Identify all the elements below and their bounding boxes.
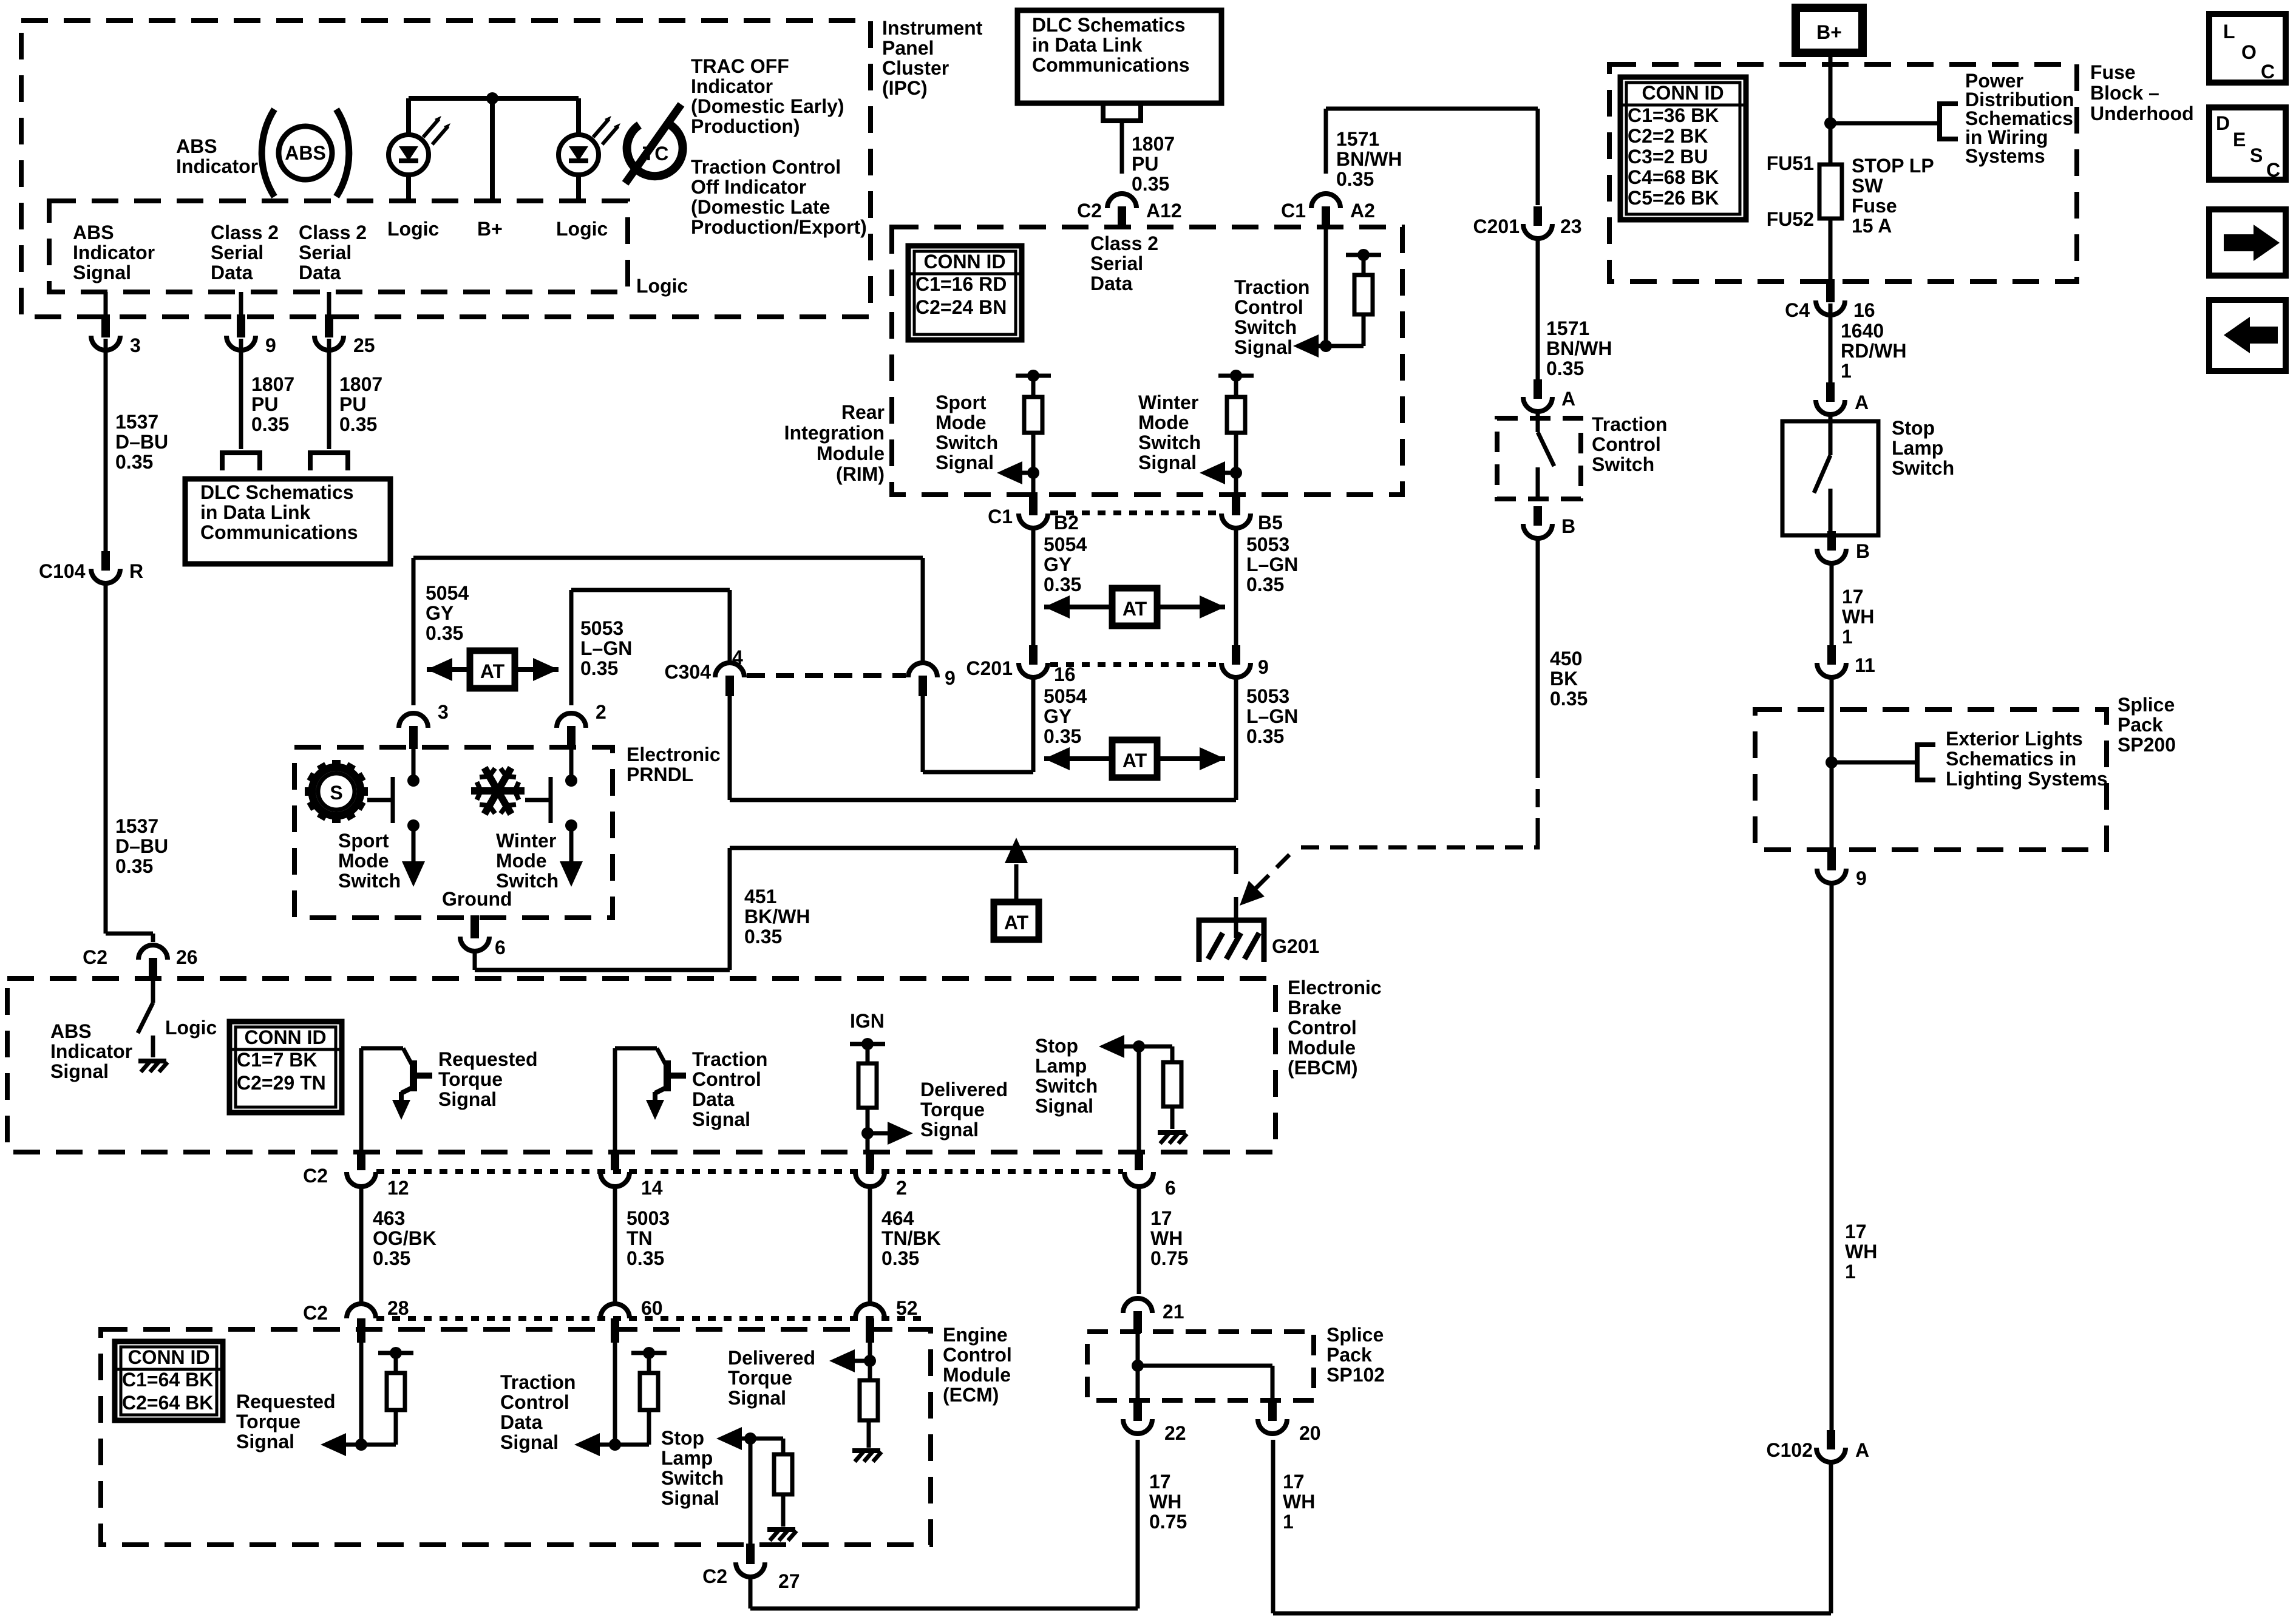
label: Splice Pack SP200 [2118,694,2176,756]
connector: ECM C2 pin 27 [702,1544,800,1592]
connector: ECM C2 pin 60 [600,1297,663,1343]
svg-text:Logic: Logic [636,275,688,297]
fuse FU51/FU52 STOP LP SW 15A [1819,123,1842,280]
svg-text:Panel: Panel [882,37,934,59]
svg-text:IGN: IGN [850,1010,885,1032]
svg-text:OG/BK: OG/BK [373,1227,436,1249]
svg-text:E: E [2233,129,2246,151]
label: IGN [850,1010,885,1032]
svg-text:9: 9 [1258,656,1269,678]
svg-text:C4: C4 [1785,299,1810,321]
svg-text:C1=7 BK: C1=7 BK [237,1049,318,1071]
svg-text:Torque: Torque [920,1099,985,1120]
svg-text:AT: AT [1123,750,1147,771]
svg-text:Serial: Serial [211,242,263,263]
svg-text:15 A: 15 A [1852,215,1892,237]
label: Requested Torque Signal (ECM) [236,1391,336,1453]
junction: ECM delivered torque node [864,1355,876,1367]
svg-text:BK: BK [1550,668,1578,690]
wire 463 OG/BK 0.35 (12 to 28) [359,1188,364,1303]
svg-text:CONN ID: CONN ID [1642,82,1724,104]
label: wire 464 TN/BK 0.35 [881,1207,941,1269]
label: Logic (right LED) [556,218,608,240]
wire: IPC B+ top rail [409,98,579,201]
wire 5054 GY (PRNDL pin3 up/over to C304-9) [413,558,923,705]
label: Fuse Block - Underhood [2090,61,2194,124]
connector: PRNDL pin 3 [399,701,449,749]
svg-text:ABS: ABS [50,1020,92,1042]
label: FU52 [1767,208,1814,230]
resistor: delivered torque source (from IGN) [850,1038,885,1151]
svg-text:3: 3 [130,334,141,356]
Traction Control Switch box [1497,418,1581,499]
label: wire 17 WH 0.75 (upper) [1150,1207,1188,1269]
svg-text:1807: 1807 [251,373,294,395]
termination bracket: wire 25 into DLC box [310,453,348,470]
svg-text:1: 1 [1842,626,1853,648]
wire 5053 L-GN (C304-4 down/right/up to C201-9) [730,696,1236,800]
svg-text:Switch: Switch [1138,432,1201,453]
svg-text:Data: Data [692,1088,735,1110]
svg-text:L–GN: L–GN [580,637,632,659]
ABS indicator icon [262,109,349,197]
wire: pin 11 into SP200 [1830,679,1834,762]
label: Rear Integration Module (RIM) [784,401,885,485]
svg-text:WH: WH [1150,1227,1183,1249]
label: Stop Lamp Switch [1892,417,1954,479]
connector: SP102 pin 21 [1123,1298,1184,1333]
svg-text:5003: 5003 [627,1207,670,1229]
label: Traction Control Off Indicator (Domestic Late Production/Export) [691,156,867,238]
wire: traction control data into ECM [613,1340,617,1445]
reference box: DLC Schematics in Data Link Communications (left) [185,479,390,564]
resistor: TCS signal pull-up [1346,249,1381,346]
svg-text:Mode: Mode [496,850,547,872]
svg-text:5054: 5054 [426,582,469,604]
svg-text:Data: Data [299,262,341,283]
svg-text:PRNDL: PRNDL [627,764,693,785]
svg-text:0.35: 0.35 [1246,725,1284,747]
connector line: C1 (dotted) [1050,510,1220,515]
svg-text:C1=16 RD: C1=16 RD [915,273,1007,295]
ground G201 [1199,920,1319,962]
svg-text:Production): Production) [691,115,800,137]
connector: PRNDL pin 6 [460,915,506,958]
LOC navigation box [2209,14,2286,83]
label: Logic (IPC logic block) [636,275,688,297]
arrow: Stop Lamp Switch Signal (EBCM) [1099,1035,1139,1058]
wire: traction control data (EBCM pin C2-14) [613,1048,617,1151]
svg-text:Block –: Block – [2090,82,2159,104]
label: Engine Control Module (ECM) [943,1324,1012,1406]
svg-text:Signal: Signal [1138,452,1197,473]
connector: SP102 pin 22 [1123,1398,1186,1444]
svg-text:A: A [1855,392,1869,413]
wire: requested torque (EBCM pin C2-12) [359,1048,364,1151]
connector line: EBCM C2 (dotted) [376,1169,1123,1174]
connector: EBCM C2 pin 6 [1124,1152,1176,1199]
svg-text:CONN ID: CONN ID [244,1026,326,1048]
wire 17 WH 1 (SP200-9 down to C102) [1830,885,1834,1430]
wire: B+ to power distribution ref [1830,121,1940,126]
label: wire 5003 TN 0.35 [627,1207,670,1269]
svg-text:Cluster: Cluster [882,57,949,79]
svg-text:Signal: Signal [50,1060,109,1082]
svg-text:Signal: Signal [73,262,131,283]
label: wire 5053 L-GN 0.35 (lower) [1246,685,1298,747]
svg-text:O: O [2241,41,2257,63]
svg-text:PU: PU [1132,153,1158,175]
svg-text:3: 3 [438,701,449,723]
connector: stop lamp switch pin B [1817,531,1870,563]
svg-text:Splice: Splice [2118,694,2175,716]
svg-text:0.35: 0.35 [580,657,618,679]
svg-text:DLC Schematics: DLC Schematics [1032,14,1186,36]
wire: stop lamp switch signal (EBCM pin C2-6) [1137,1046,1141,1151]
label: wire 5054 GY 0.35 (PRNDL) [426,582,469,644]
svg-text:BN/WH: BN/WH [1546,337,1612,359]
RIM CONN ID table [908,246,1022,340]
svg-text:in Data Link: in Data Link [1032,34,1143,56]
label: STOP LP SW Fuse 15 A [1852,155,1934,237]
label: Class 2 Serial Data (IPC pin 25) [299,222,367,283]
svg-text:STOP LP: STOP LP [1852,155,1934,177]
wire 17 WH 1 (C102-A to SP102 pin 20) [1273,1440,1831,1613]
svg-text:Winter: Winter [1138,392,1198,413]
svg-text:1537: 1537 [115,411,158,433]
wire: G201 drop (lower) [1234,897,1238,938]
label: Sport Mode Switch [338,830,401,892]
label: Stop Lamp Switch Signal (ECM) [661,1427,724,1509]
svg-text:Signal: Signal [1035,1095,1093,1117]
connector stub: C304 pin 9 wire down [921,696,925,708]
svg-text:C2=24 BN: C2=24 BN [915,296,1007,318]
svg-text:SP200: SP200 [2118,734,2176,756]
wire: C2-27 to splice pack 22 [750,1440,1138,1609]
svg-text:A: A [1855,1439,1869,1461]
svg-text:(ECM): (ECM) [943,1384,999,1406]
svg-text:0.35: 0.35 [115,451,153,473]
svg-text:0.35: 0.35 [1246,574,1284,595]
connector: EBCM C2 pin 2 [855,1152,907,1199]
AT option symbol (PRNDL) [427,651,559,688]
svg-text:Signal: Signal [936,452,994,473]
svg-text:Communications: Communications [200,521,358,543]
svg-text:9: 9 [1856,867,1867,889]
traction control switch blade [1538,413,1554,499]
svg-text:GY: GY [426,602,453,624]
svg-text:DLC Schematics: DLC Schematics [200,481,354,503]
arrow+wire: Traction Control Switch Signal [1293,334,1364,358]
svg-text:Control: Control [1234,296,1303,318]
svg-text:Signal: Signal [438,1088,497,1110]
connector: IPC pin 25 [314,314,375,356]
svg-text:TN: TN [627,1227,653,1249]
label: wire 451 BK/WH 0.35 [744,886,810,947]
connector line: ECM C2 (dotted) [376,1316,929,1321]
svg-text:0.35: 0.35 [881,1247,919,1269]
svg-text:Electronic: Electronic [1288,977,1382,998]
label: wire 17 WH 1 (upper) [1842,586,1874,648]
label: wire 5054 GY 0.35 (B2) [1044,534,1087,595]
svg-text:1537: 1537 [115,815,158,837]
svg-text:WH: WH [1283,1491,1315,1513]
wire: ABS indicator signal inside IPC [104,292,108,316]
svg-text:C1: C1 [988,506,1013,527]
wire 5053 L-GN (B5 to C201-9) [1234,529,1238,645]
sport mode gear icon [305,760,368,823]
svg-text:ABS: ABS [285,142,326,164]
svg-text:Winter: Winter [496,830,556,852]
svg-text:2: 2 [896,1177,907,1199]
svg-text:463: 463 [373,1207,405,1229]
previous-page arrow box [2209,300,2286,371]
svg-text:L–GN: L–GN [1246,705,1298,727]
svg-text:9: 9 [945,667,956,689]
label: ABS Indicator (icon caption) [176,135,258,177]
svg-text:1571: 1571 [1336,128,1379,150]
termination bracket: wire 9 into DLC box [222,453,260,470]
svg-text:GY: GY [1044,554,1072,575]
wire: delivered torque into ECM [868,1340,872,1361]
svg-text:Traction: Traction [500,1371,576,1393]
AT option symbol (lower) [1044,740,1225,778]
svg-text:RD/WH: RD/WH [1841,340,1906,362]
svg-text:21: 21 [1163,1301,1184,1323]
svg-text:6: 6 [1165,1177,1176,1199]
svg-text:Lamp: Lamp [1035,1055,1087,1077]
svg-text:0.35: 0.35 [627,1247,664,1269]
arrow: Requested Torque Signal (ECM) [321,1433,361,1456]
svg-text:Signal: Signal [661,1487,719,1509]
Electronic PRNDL box [294,747,613,918]
resistor: ECM delivered torque to ground [860,1361,878,1448]
label: Splice Pack SP102 [1326,1324,1385,1386]
svg-text:Class 2: Class 2 [1090,232,1158,254]
wire: requested torque into ECM [359,1340,364,1445]
wire 17 WH 0.75 (6 to 21) [1137,1188,1141,1294]
label: Class 2 Serial Data (IPC pin 9) [211,222,279,283]
svg-text:Instrument: Instrument [882,17,983,39]
svg-text:Control: Control [692,1068,761,1090]
svg-text:(EBCM): (EBCM) [1288,1057,1358,1079]
svg-text:Logic: Logic [387,218,439,240]
svg-text:17: 17 [1150,1207,1172,1229]
svg-text:11: 11 [1855,654,1875,676]
svg-text:1: 1 [1841,360,1852,382]
ground: ECM delivered torque [852,1451,881,1462]
label: Electronic Brake Control Module (EBCM) [1288,977,1382,1079]
wire: SP102 internal splice [1138,1333,1272,1399]
svg-text:Fuse: Fuse [1852,195,1897,217]
label: Traction Control Data Signal (ECM) [500,1371,576,1453]
svg-text:Ground: Ground [442,888,512,910]
label: Traction Control Switch Signal [1234,276,1309,358]
svg-text:0.35: 0.35 [744,926,782,947]
wire 5053 L-GN (PRNDL pin2 up/over to C304-4) [571,590,730,705]
svg-text:AT: AT [1123,598,1147,620]
termination bracket: DLC box to wire 1807 [1103,103,1141,121]
wire 1571 BN/WH 0.35 (C201-23 to TCS A) [1536,240,1540,379]
wire: Class2 serial data stub (pin 9) [239,292,243,316]
svg-text:12: 12 [387,1177,409,1199]
svg-text:Logic: Logic [165,1017,217,1039]
svg-text:Lighting Systems: Lighting Systems [1946,768,2108,790]
svg-text:27: 27 [778,1570,800,1592]
winter mode switch (wire, contacts and travel arrow) [560,749,583,887]
svg-text:0.35: 0.35 [1132,173,1169,195]
svg-text:Signal: Signal [728,1387,786,1409]
svg-text:Control: Control [500,1391,569,1413]
svg-text:0.35: 0.35 [251,413,289,435]
junction: ECM stop lamp node [744,1432,756,1445]
resistor: sport mode pull-up [1016,370,1051,493]
svg-text:451: 451 [744,886,776,907]
wire 1807 PU 0.35 (pin 25 to DLC ref) [327,339,331,449]
connector: ECM C2 pin 52 [855,1297,918,1343]
connector: IPC pin 9 [226,314,276,356]
connector: C201 pin 23 [1473,206,1582,239]
svg-text:Engine: Engine [943,1324,1008,1346]
svg-text:D–BU: D–BU [115,431,168,453]
svg-text:Pack: Pack [1326,1344,1372,1366]
label: wire 450 BK 0.35 [1550,648,1588,710]
connector: ECM C2 pin 28 [303,1297,409,1343]
svg-text:C: C [2261,61,2275,83]
svg-text:C2=29 TN: C2=29 TN [237,1072,326,1094]
svg-text:Integration: Integration [784,422,885,444]
svg-text:Serial: Serial [1090,253,1143,274]
wire 17 WH 1 (B to splice pack 11) [1830,565,1834,645]
label: Power Distribution Schematics in Wiring Systems [1965,70,2074,167]
wire 5054 GY (B2 to C201-16) [1031,529,1036,645]
arrow: Traction Control Data Signal (ECM) [574,1433,615,1456]
junction: delivered torque node (EBCM) [861,1127,874,1139]
svg-text:D: D [2216,112,2230,134]
svg-text:0.35: 0.35 [1546,358,1584,379]
svg-text:FU52: FU52 [1767,208,1814,230]
svg-text:26: 26 [176,946,198,968]
svg-text:Lamp: Lamp [1892,437,1943,459]
svg-text:C2: C2 [83,946,107,968]
fuse block CONN ID table [1620,77,1746,220]
resistor: ECM requested torque load [361,1347,413,1445]
svg-text:CONN ID: CONN ID [923,251,1005,273]
connector: C1 / A2 (RIM top) [1281,194,1375,229]
connector: SP200 pin 9 [1817,847,1867,889]
svg-text:0.35: 0.35 [339,413,377,435]
label: Winter Mode Switch Signal [1138,392,1201,473]
label: TRAC OFF Indicator (Domestic Early) Production) [691,55,844,137]
svg-text:Systems: Systems [1965,145,2045,167]
svg-text:C1: C1 [1281,200,1306,222]
svg-text:Brake: Brake [1288,997,1342,1019]
svg-text:Control: Control [943,1344,1012,1366]
junction: SP102 splice node [1132,1360,1144,1372]
svg-text:Sport: Sport [338,830,389,852]
IPC internal Logic sub-box (dashed) [49,201,628,292]
svg-text:Electronic: Electronic [627,744,721,765]
svg-text:0.35: 0.35 [1550,688,1588,710]
svg-text:Traction: Traction [1234,276,1309,298]
transistor: Requested Torque Signal output [361,1048,432,1120]
svg-text:450: 450 [1550,648,1582,670]
label: Traction Control Switch [1592,413,1667,475]
svg-text:A12: A12 [1146,200,1182,222]
svg-text:Signal: Signal [1234,336,1292,358]
connector: C201 pin 16 [966,645,1076,685]
svg-text:C2: C2 [702,1565,727,1587]
junction: sport mode signal node [1027,467,1039,479]
resistor: stop lamp signal load (EBCM) [1139,1046,1181,1129]
junction: B+ rail node [486,92,498,104]
LED indicator (TRAC OFF early production), left [389,98,450,201]
svg-text:SW: SW [1852,175,1883,197]
label: wire 1571 BN/WH 0.35 (lower) [1546,317,1612,379]
svg-text:Torque: Torque [236,1411,301,1432]
label: wire 5053 L-GN 0.35 (PRNDL) [580,617,632,679]
svg-text:C2=64 BK: C2=64 BK [122,1392,213,1414]
svg-text:B+: B+ [1816,21,1842,43]
svg-text:Serial: Serial [299,242,352,263]
svg-text:G201: G201 [1272,935,1319,957]
svg-text:B5: B5 [1258,512,1283,534]
connector: C304 pin 4 [665,646,745,696]
svg-text:C1=36 BK: C1=36 BK [1628,104,1719,126]
svg-text:Control: Control [1592,433,1661,455]
svg-text:C2: C2 [303,1302,328,1324]
svg-text:Pack: Pack [2118,714,2163,736]
svg-text:28: 28 [387,1297,409,1319]
svg-text:0.35: 0.35 [1044,725,1081,747]
svg-text:Splice: Splice [1326,1324,1384,1346]
svg-text:S: S [330,782,342,804]
svg-text:Data: Data [211,262,253,283]
svg-text:Requested: Requested [438,1048,538,1070]
svg-text:C5=26 BK: C5=26 BK [1628,187,1719,209]
connector: C102 pin A [1767,1430,1870,1462]
wire: traction control switch signal (C1-A2 down) [1324,228,1328,346]
svg-text:(Domestic Late: (Domestic Late [691,196,830,218]
reference box: DLC Schematics in Data Link Communications (top) [1017,10,1221,103]
label: wire 1571 BN/WH 0.35 (upper) [1336,128,1402,190]
label: wire 1807 PU 0.35 (right) [339,373,382,435]
svg-text:0.35: 0.35 [426,622,463,644]
wire: G201 drop (upper) [1234,848,1238,874]
label: wire 1807 PU 0.35 (top) [1132,133,1175,195]
svg-text:(RIM): (RIM) [836,463,885,485]
label: Stop Lamp Switch Signal (EBCM) [1035,1035,1098,1117]
svg-text:Module: Module [1288,1037,1356,1059]
svg-text:AT: AT [1004,912,1029,934]
svg-text:1: 1 [1283,1511,1294,1533]
sport mode switch contact [367,777,393,823]
svg-text:22: 22 [1164,1422,1186,1444]
svg-text:Off Indicator: Off Indicator [691,176,806,198]
svg-text:C201: C201 [966,657,1013,679]
junction: ECM traction data node [609,1439,621,1451]
svg-text:CONN ID: CONN ID [127,1346,209,1368]
svg-text:1807: 1807 [339,373,382,395]
svg-text:0.35: 0.35 [373,1247,410,1269]
svg-text:Switch: Switch [661,1467,724,1489]
svg-text:1640: 1640 [1841,320,1884,342]
label: wire 1537 D-BU 0.35 (upper) [115,411,168,473]
svg-text:20: 20 [1299,1422,1321,1444]
Splice Pack SP102 box [1087,1332,1314,1400]
svg-text:C2: C2 [303,1165,328,1187]
svg-text:Traction Control: Traction Control [691,156,841,178]
